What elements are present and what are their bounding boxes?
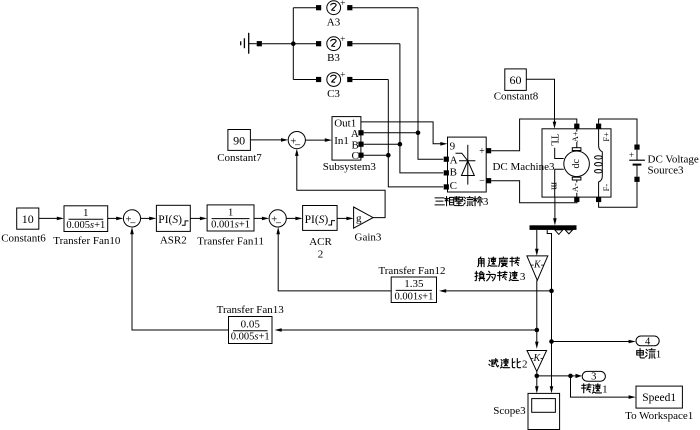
field winding coil	[595, 129, 603, 197]
node tap to outport 3	[535, 374, 540, 379]
thyristor symbol	[456, 145, 476, 185]
outport block 4 (dianliu1 / current1)	[636, 336, 659, 346]
svg-text:10: 10	[22, 212, 34, 226]
sum junction S2	[269, 210, 286, 230]
svg-text:g: g	[356, 212, 362, 224]
node phase A tap	[416, 131, 421, 136]
armature brush bottom	[572, 177, 581, 180]
svg-text:0.005s+1: 0.005s+1	[231, 332, 270, 343]
pi controller block ACR2	[303, 206, 338, 231]
svg-text:−: −	[294, 139, 300, 151]
svg-text:C: C	[450, 180, 457, 192]
svg-text:To Workspace1: To Workspace1	[625, 410, 693, 422]
constant block Constant6	[17, 208, 39, 229]
rectifier port C	[444, 184, 449, 189]
wire Constant6 to Transfer Fan10	[39, 217, 58, 219]
svg-text:−: −	[130, 218, 136, 230]
transfer fn block Transfer Fan12	[391, 277, 436, 303]
constant block Constant7	[228, 130, 251, 151]
pi controller block ASR2	[156, 205, 190, 231]
wire Gain3 to sum S3 feedback	[297, 155, 385, 218]
armature brush top	[572, 148, 581, 151]
svg-text:+: +	[340, 71, 345, 81]
svg-text:+: +	[479, 146, 485, 157]
to-workspace block Speed1	[636, 386, 682, 408]
transfer fn block Transfer Fan10	[64, 206, 108, 232]
ACR2 saturation icon	[328, 221, 335, 225]
wire ACR2 to Gain3	[337, 217, 347, 219]
svg-text:ACR: ACR	[309, 236, 332, 248]
wire to To Workspace block	[571, 376, 630, 397]
svg-text:C3: C3	[327, 88, 340, 100]
wire to B3	[293, 43, 316, 45]
svg-text:0.005s+1: 0.005s+1	[66, 220, 105, 231]
Subsystem3 port B	[358, 142, 363, 147]
C3 right port	[347, 77, 352, 82]
svg-text:Transfer Fan11: Transfer Fan11	[197, 235, 264, 247]
svg-text:−: −	[275, 218, 281, 230]
bus selector nub 2	[565, 230, 572, 234]
label dian-liu-1 (current 1)	[637, 349, 662, 361]
DC machine port A-	[574, 197, 579, 202]
node phase B tap	[398, 142, 403, 147]
svg-text:0.001s+1: 0.001s+1	[211, 220, 250, 231]
wire ASR2 to Transfer Fan11	[190, 217, 201, 219]
svg-text:-K-: -K-	[530, 353, 543, 364]
wire m to bus selector	[554, 197, 556, 219]
wire to outport zhuansu1	[571, 375, 577, 377]
B3 left port	[316, 41, 321, 46]
wire phase B to rectifier	[400, 44, 443, 173]
svg-text:Speed1: Speed1	[642, 392, 676, 404]
wire sum2 to ACR2	[286, 217, 296, 219]
wire sum to Subsystem3 In1	[305, 139, 325, 141]
wire to outport dianliu1	[552, 341, 630, 343]
svg-text:3: 3	[483, 196, 489, 208]
wire Subsystem3 C to phase C	[364, 154, 389, 156]
svg-text:2: 2	[318, 249, 324, 261]
wire to Transfer Fan12	[445, 290, 551, 292]
svg-text:Transfer Fan12: Transfer Fan12	[378, 265, 445, 277]
wire Constant7 to sum	[250, 139, 282, 141]
label huan-wei-zhuan-su-3 (convert to rpm 3)	[475, 271, 526, 283]
wire brush to A-	[576, 180, 578, 197]
svg-text:1: 1	[83, 207, 89, 219]
constant block Constant8	[505, 69, 527, 91]
thyristor bridge block	[448, 137, 487, 192]
svg-text:Subsystem3: Subsystem3	[323, 161, 377, 173]
svg-text:3: 3	[520, 271, 526, 283]
ground port	[257, 41, 262, 46]
wire battery - to F-	[599, 182, 637, 207]
svg-text:+: +	[629, 150, 634, 160]
wire Transfer Fan13 to sum1 feedback	[132, 233, 229, 330]
wire to branch node	[537, 375, 571, 377]
rectifier port +	[486, 148, 491, 153]
svg-text:0.001s+1: 0.001s+1	[394, 291, 433, 302]
wire to A3	[293, 7, 316, 9]
DC machine port F-	[596, 197, 601, 202]
Subsystem3 port C	[358, 153, 363, 158]
DC machine port A+	[574, 124, 579, 129]
svg-text:Gain3: Gain3	[355, 232, 382, 244]
svg-text:ASR2: ASR2	[160, 234, 187, 246]
svg-text:In1: In1	[334, 135, 349, 147]
subsystem block Subsystem3	[332, 117, 361, 161]
svg-text:60: 60	[510, 73, 522, 87]
sum junction S1	[123, 210, 140, 230]
svg-text:PI(S): PI(S)	[305, 214, 329, 226]
AC voltage source C3	[327, 71, 346, 87]
wire Subsystem3 B to phase B	[364, 143, 400, 145]
node phase C tap	[386, 153, 391, 158]
wire C3 output	[352, 79, 388, 81]
dc machine block DC Machine3	[542, 129, 611, 197]
arrowhead into reduction gain	[535, 342, 539, 349]
wire Transfer Fan11 to sum2	[254, 217, 263, 219]
wire Out1 to rectifier gate 9	[361, 122, 441, 144]
wire common vertical	[292, 8, 294, 80]
node tap to Transfer Fan12	[549, 289, 554, 294]
rectifier port -	[486, 178, 491, 183]
wire Transfer Fan10 to sum1	[108, 217, 118, 219]
battery bottom port	[634, 177, 639, 182]
svg-text:90: 90	[233, 134, 245, 148]
label jiao-su-du-zhuan (angular speed)	[478, 257, 520, 267]
Subsystem3 port A	[358, 130, 363, 135]
AC voltage source B3	[327, 35, 346, 51]
wire phase A to rectifier	[418, 8, 443, 160]
wire A3 output	[352, 7, 418, 9]
sum junction S3	[288, 132, 305, 152]
scope block Scope3	[528, 393, 560, 429]
rectifier port A	[444, 157, 449, 162]
gain block jiaosudu-zhuanhuan (rad/s to rpm conversion 3), down-pointing triangle	[527, 256, 548, 280]
wire sum1 to ASR2	[141, 217, 151, 219]
battery top port	[634, 145, 639, 150]
svg-text:A3: A3	[327, 16, 341, 28]
transfer fn block Transfer Fan13	[229, 317, 273, 344]
label san-xiang-zheng-liu-qiao-3 (three-phase rectifier bridge 3)	[435, 196, 489, 208]
wire bus second output down	[547, 230, 551, 391]
svg-text:Constant8: Constant8	[494, 90, 539, 102]
svg-text:DC Voltage: DC Voltage	[648, 153, 699, 165]
label jian-su-bi-2 (reduction ratio 2)	[489, 359, 528, 371]
arrowhead into Scope3 first input	[535, 386, 539, 393]
arrowhead into Scope3 second input	[550, 386, 554, 393]
battery DC Voltage Source3	[629, 150, 645, 177]
wire F+ to battery +	[599, 119, 637, 145]
wire B3 output	[352, 43, 400, 45]
svg-text:−: −	[479, 176, 485, 187]
wire rectifier + to A+	[491, 119, 577, 151]
svg-text:m: m	[549, 182, 560, 190]
bus selector bar	[530, 225, 577, 230]
wire Subsystem3 A to phase A	[364, 132, 418, 134]
wire phase C to rectifier	[388, 80, 443, 187]
wire Transfer Fan12 to sum2 feedback	[278, 233, 391, 291]
gain block jiansubi2 (reduction ratio 2), down-pointing triangle	[527, 351, 547, 372]
svg-text:Source3: Source3	[648, 165, 685, 177]
svg-text:1: 1	[602, 384, 608, 396]
wire rectifier - to A-	[491, 181, 577, 203]
wire to Transfer Fan13	[281, 329, 537, 331]
A3 right port	[347, 5, 352, 10]
svg-text:1: 1	[656, 349, 662, 361]
A3 left port	[316, 5, 321, 10]
svg-text:B: B	[450, 166, 457, 178]
svg-text:-K-: -K-	[531, 259, 544, 270]
svg-text:0.05: 0.05	[241, 318, 261, 330]
bus selector nub 1	[555, 230, 563, 235]
svg-text:1: 1	[228, 206, 234, 218]
svg-text:A: A	[450, 155, 458, 167]
rectifier port B	[444, 170, 449, 175]
wire reduction gain down	[536, 372, 538, 391]
svg-text:F-: F-	[601, 184, 611, 192]
B3 right port	[347, 41, 352, 46]
svg-text:Constant6: Constant6	[1, 232, 46, 244]
wire Constant8 to DC Machine TL	[526, 79, 554, 122]
svg-text:1.35: 1.35	[404, 278, 424, 290]
dc machine rotated label A-	[573, 182, 581, 192]
svg-text:2: 2	[522, 359, 528, 371]
wire bus to rad2rpm gain	[536, 230, 538, 250]
svg-text:TL: TL	[549, 134, 560, 146]
C3 left port	[316, 77, 321, 82]
label zhuan-su-1 (rotational speed 1)	[582, 384, 608, 396]
wire rad2rpm down	[536, 280, 538, 342]
dc machine internal m lead	[555, 169, 564, 197]
svg-text:B3: B3	[327, 52, 340, 64]
svg-text:4: 4	[645, 336, 651, 347]
dc machine internal TL lead	[555, 148, 564, 159]
AC voltage source A3	[327, 0, 346, 15]
DC machine port F+	[596, 124, 601, 129]
svg-text:Transfer Fan13: Transfer Fan13	[217, 304, 285, 316]
wire ground to node	[262, 43, 293, 45]
outport block 3 (zhuansu1 / speed1)	[582, 371, 605, 381]
ground symbol	[241, 33, 257, 54]
node junction sources common	[291, 41, 296, 46]
svg-text:F+: F+	[601, 132, 611, 142]
svg-text:A-: A-	[570, 183, 580, 192]
ASR2 saturation icon	[182, 221, 189, 225]
wire to C3	[293, 79, 316, 81]
dc machine armature circle	[564, 151, 590, 177]
wire A+ to brush	[576, 129, 578, 148]
svg-text:PI(S): PI(S)	[158, 214, 182, 226]
svg-text:3: 3	[591, 372, 596, 383]
svg-text:+: +	[340, 35, 345, 45]
dc machine rotated label A+	[573, 132, 581, 142]
svg-text:DC Machine3: DC Machine3	[492, 161, 555, 173]
svg-text:dc: dc	[571, 159, 582, 169]
transfer fn block Transfer Fan11	[207, 205, 254, 231]
node tap to outport 4	[549, 339, 554, 344]
svg-text:A+: A+	[570, 131, 580, 142]
svg-text:Constant7: Constant7	[217, 152, 262, 164]
svg-text:Scope3: Scope3	[493, 405, 526, 417]
svg-text:+: +	[340, 0, 345, 9]
node branch to speed outputs	[568, 374, 573, 379]
svg-text:9: 9	[450, 140, 456, 152]
svg-text:Transfer Fan10: Transfer Fan10	[53, 235, 121, 247]
gain block Gain3, right-pointing triangle	[354, 207, 374, 228]
node speed tap to TF13	[535, 328, 540, 333]
